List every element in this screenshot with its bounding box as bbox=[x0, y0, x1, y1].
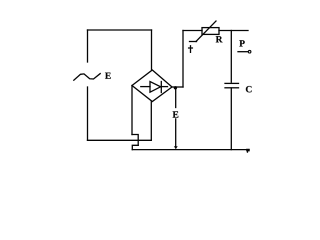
diode cathode bar bbox=[160, 82, 162, 93]
wire: right riser up to top rail bbox=[182, 31, 184, 88]
junction dot at bridge right vertex bbox=[174, 86, 177, 89]
wire: left loop left side lower stub bbox=[87, 87, 89, 140]
wire: bottom bus bbox=[132, 149, 249, 151]
bus end terminal mark bbox=[246, 149, 250, 153]
label C bbox=[246, 86, 252, 92]
wire: top rail left of resistor bbox=[183, 30, 202, 32]
wire: capacitor top lead bbox=[230, 31, 232, 83]
terminal P circle bbox=[248, 50, 251, 53]
wire: left loop left side upper stub bbox=[87, 30, 89, 62]
label P bbox=[239, 40, 244, 46]
wire: top rail right of resistor bbox=[219, 30, 248, 32]
rheostat wiper tap line bbox=[190, 41, 197, 43]
wire: bottom vertex drop bbox=[150, 102, 152, 141]
wire: left loop top rail bbox=[88, 29, 152, 31]
rheostat diagonal arrow bbox=[196, 21, 216, 42]
diode cathode lead bbox=[161, 86, 167, 88]
label R bbox=[216, 36, 223, 42]
wire: crossover jog lower bbox=[132, 145, 138, 149]
wire: E arrow upper segment bbox=[175, 89, 177, 108]
wiper marker dagger bbox=[189, 46, 193, 53]
AC source G1 squiggle bbox=[74, 74, 100, 81]
wire: bridge top feed bbox=[151, 30, 153, 70]
diode inside bridge: anode lead bbox=[141, 86, 150, 88]
wire: bridge right vertex to riser bbox=[172, 86, 183, 88]
capacitor C top plate bbox=[225, 82, 239, 84]
bridge rectifier V1 diamond bbox=[132, 70, 172, 102]
rheostat R body bbox=[202, 28, 219, 35]
wire: capacitor bottom lead bbox=[230, 88, 232, 150]
label E (rectified) bbox=[173, 111, 179, 117]
wire: left vertex drop bbox=[131, 86, 133, 135]
capacitor C bottom plate bbox=[225, 87, 239, 89]
wire: output tap P line bbox=[238, 51, 248, 53]
wire: crossover jog upper bbox=[132, 135, 138, 146]
diode triangle bbox=[150, 82, 161, 93]
wire: E arrow lower segment bbox=[175, 119, 177, 146]
E arrowhead onto bus bbox=[174, 146, 178, 149]
label E (source) bbox=[105, 73, 111, 79]
wire: left loop bottom bbox=[88, 139, 152, 141]
